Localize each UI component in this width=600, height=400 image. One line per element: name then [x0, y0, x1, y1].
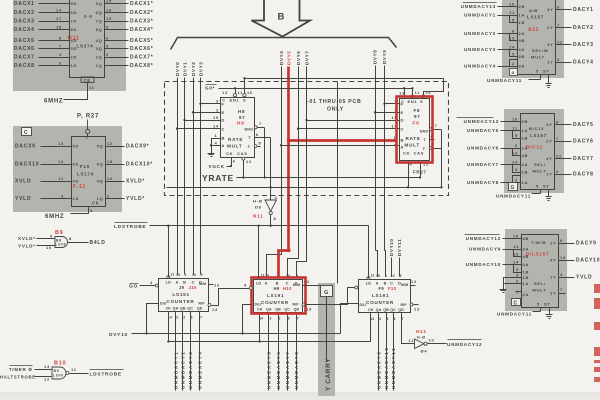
- wire UNMDACY6 to mux B-C11: [501, 148, 521, 150]
- mux A11 LS157 body: [518, 0, 556, 75]
- svg-text:A/B: A/B: [529, 8, 538, 13]
- svg-text:DVY9: DVY9: [382, 50, 387, 64]
- svg-text:3: 3: [515, 167, 518, 172]
- svg-text:4: 4: [150, 280, 153, 285]
- svg-text:13: 13: [58, 141, 64, 146]
- svg-text:18: 18: [56, 25, 62, 30]
- svg-text:10: 10: [107, 176, 113, 181]
- svg-text:M/M: M/M: [293, 283, 300, 287]
- svg-text:4A: 4A: [522, 162, 529, 167]
- wire XVLD* output: [106, 181, 125, 183]
- svg-text:YRATE: YRATE: [202, 173, 234, 183]
- svg-text:10: 10: [429, 338, 435, 343]
- wire second enable line upper: [245, 78, 444, 80]
- wire DACX3* output: [105, 21, 129, 23]
- svg-text:FR27: FR27: [413, 170, 427, 175]
- wire DACX9 input: [41, 146, 72, 148]
- wire counter F10 QD to inverter H11: [402, 318, 408, 344]
- svg-text:4: 4: [275, 195, 278, 200]
- wire DVY to F9 pin D: [307, 120, 400, 122]
- svg-text:Ø4: Ø4: [421, 349, 428, 354]
- svg-text:UNMDACY11: UNMDACY11: [391, 347, 396, 389]
- svg-text:VGCK: VGCK: [209, 164, 225, 169]
- counter J10 M/M output pin 12: [209, 284, 214, 286]
- svg-text:DACY2: DACY2: [573, 25, 594, 31]
- wire DVY5 red branch to rate multiplier F9: [289, 139, 397, 142]
- svg-text:4Y: 4Y: [550, 258, 556, 263]
- zone letter box C (left): [22, 128, 32, 136]
- bus bracket under arrow B: [171, 38, 397, 50]
- svg-text:UNMDACY1: UNMDACY1: [173, 351, 178, 389]
- svg-text:LS08: LS08: [56, 243, 67, 247]
- svg-text:5Q: 5Q: [96, 1, 103, 6]
- wire 6MHZ to register U clock: [64, 87, 88, 100]
- svg-text:F9: F9: [379, 286, 385, 291]
- wire UNMDACY8 to mux B-C11: [501, 182, 521, 184]
- svg-text:4Y: 4Y: [546, 156, 552, 161]
- svg-text:DACY5: DACY5: [573, 122, 594, 128]
- svg-text:7: 7: [435, 123, 438, 128]
- svg-text:DACX9: DACX9: [15, 144, 36, 150]
- svg-text:6: 6: [515, 143, 518, 148]
- svg-text:H-Ø: H-Ø: [417, 336, 426, 340]
- svg-text:3A: 3A: [519, 64, 526, 69]
- svg-text:UNMDACY3: UNMDACY3: [188, 351, 193, 389]
- wire DACX6* output: [105, 48, 129, 50]
- svg-text:7: 7: [297, 317, 299, 321]
- svg-text:3: 3: [216, 99, 219, 104]
- wire DACY2 output of mux A11: [556, 27, 572, 29]
- svg-text:Y CARRY: Y CARRY: [325, 358, 332, 391]
- wire DVY0 vertical: [177, 78, 179, 275]
- wire UNMDACY5 vertical (counter output): [268, 317, 270, 391]
- svg-text:M/M: M/M: [199, 282, 206, 286]
- svg-text:4Q: 4Q: [96, 38, 103, 43]
- svg-text:1B: 1B: [523, 270, 530, 275]
- svg-text:SEL/: SEL/: [534, 281, 546, 286]
- svg-text:13: 13: [212, 307, 218, 312]
- wire UNMDACY6 vertical (counter output): [278, 317, 280, 391]
- wire UNMDACY3 vertical (counter output): [190, 316, 192, 391]
- svg-text:2A: 2A: [523, 292, 530, 297]
- wire DVY10 drop: [391, 258, 393, 277]
- svg-text:15: 15: [376, 274, 380, 278]
- svg-text:B/C11: B/C11: [526, 145, 543, 151]
- svg-text:T: T: [423, 138, 426, 142]
- svg-text:H11: H11: [416, 329, 427, 335]
- svg-text:3Y: 3Y: [547, 7, 553, 12]
- svg-text:1B: 1B: [519, 20, 526, 25]
- gray highlight box around mux A11 (top right): [502, 0, 564, 78]
- svg-text:H-Ø: H-Ø: [253, 199, 263, 204]
- svg-text:B: B: [401, 138, 405, 143]
- svg-text:13: 13: [414, 307, 420, 312]
- svg-text:1B: 1B: [523, 275, 530, 280]
- svg-text:UNMDACY6: UNMDACY6: [276, 351, 281, 389]
- svg-text:4Y: 4Y: [547, 42, 553, 47]
- svg-text:11: 11: [415, 91, 420, 95]
- svg-text:10: 10: [513, 234, 519, 239]
- svg-text:RATE: RATE: [406, 136, 421, 141]
- svg-text:12: 12: [214, 283, 220, 288]
- wire DVY5 highlighted red trace: [279, 67, 289, 278]
- svg-text:E: E: [401, 110, 404, 115]
- svg-text:4A: 4A: [519, 47, 526, 52]
- svg-text:2Y: 2Y: [547, 25, 553, 30]
- svg-text:MULT: MULT: [533, 288, 547, 293]
- wire 6MHZ to F10 clock: [71, 213, 89, 215]
- svg-text:12: 12: [107, 141, 113, 146]
- wire DVY to H9 pin D: [185, 120, 221, 122]
- svg-text:DVY8: DVY8: [373, 50, 378, 64]
- wire DACX7 input: [39, 57, 70, 59]
- svg-text:6: 6: [106, 36, 109, 41]
- wire UNMDACY11 vertical (counter output): [393, 318, 395, 391]
- svg-text:8D: 8D: [71, 27, 78, 32]
- svg-text:QA: QA: [376, 308, 382, 312]
- svg-text:DVY6: DVY6: [296, 51, 301, 65]
- svg-text:D: D: [401, 118, 405, 123]
- svg-text:11: 11: [238, 91, 244, 95]
- counter H10 M/M output to Y CARRY: [303, 285, 322, 287]
- wire VGCK to H9 clock: [227, 166, 232, 168]
- wire XVLD* to B9: [37, 238, 56, 240]
- svg-text:LS157: LS157: [527, 15, 544, 20]
- wire UNMDACY2 vertical (counter output): [182, 316, 184, 391]
- svg-text:10: 10: [192, 273, 196, 277]
- wire DACX5* output: [105, 40, 129, 42]
- svg-text:CK: CK: [368, 308, 374, 312]
- svg-text:D/U: D/U: [255, 303, 262, 307]
- svg-text:MULT: MULT: [533, 169, 547, 174]
- wire DACX9* output: [106, 146, 125, 148]
- svg-text:5: 5: [537, 302, 540, 307]
- counter H10 LS191 body: [254, 280, 303, 313]
- svg-text:13: 13: [399, 92, 405, 96]
- svg-text:COUNTER: COUNTER: [167, 299, 195, 304]
- svg-text:DACX10: DACX10: [15, 162, 39, 168]
- svg-text:DVY3: DVY3: [198, 62, 203, 76]
- wire counter F10 D/U drop: [341, 304, 359, 334]
- F9 CAS pin 12 with bubble: [419, 160, 422, 163]
- svg-text:1D: 1D: [73, 196, 80, 201]
- svg-text:TIMER Ø: TIMER Ø: [9, 367, 33, 372]
- svg-text:2B: 2B: [522, 119, 529, 124]
- svg-text:E-E: E-E: [84, 14, 93, 19]
- svg-text:4: 4: [244, 283, 247, 288]
- wire counter H10 D/U drop: [243, 305, 252, 334]
- gray highlight box around mux C (bottom right): [505, 229, 567, 311]
- wire DACY1 output of mux A11: [556, 9, 572, 11]
- register F10 LS174 body: [72, 137, 106, 207]
- svg-text:13: 13: [512, 151, 518, 156]
- wire DACX7* output: [105, 57, 129, 59]
- svg-text:D: D: [222, 118, 226, 123]
- svg-text:G: G: [511, 185, 516, 191]
- svg-text:CK: CK: [257, 308, 263, 312]
- svg-text:3: 3: [59, 61, 62, 66]
- svg-text:1Y: 1Y: [547, 60, 553, 65]
- svg-text:UNMDACY8: UNMDACY8: [294, 351, 299, 389]
- inverter H11: [415, 339, 425, 349]
- mux C grounded inputs: [504, 278, 522, 284]
- svg-text:J9: J9: [179, 285, 185, 290]
- svg-text:15: 15: [106, 0, 112, 4]
- svg-text:DACY6: DACY6: [573, 139, 594, 145]
- svg-text:QA: QA: [173, 307, 179, 311]
- svg-text:EN1: EN1: [230, 98, 240, 103]
- svg-text:COUNTER: COUNTER: [261, 300, 289, 305]
- wire UNMDACY7 to mux B-C11: [501, 164, 521, 166]
- svg-text:3: 3: [512, 52, 515, 57]
- svg-text:QB: QB: [180, 307, 186, 311]
- wire LDSTROBE drop to counter F10 LD: [368, 226, 370, 279]
- svg-text:11: 11: [409, 338, 415, 343]
- svg-text:GO: GO: [129, 284, 138, 290]
- svg-text:2Y: 2Y: [546, 139, 552, 144]
- svg-text:DACY7: DACY7: [573, 156, 594, 162]
- svg-text:10: 10: [391, 274, 395, 278]
- wire UNMDACY13 to mux A11: [498, 6, 518, 8]
- wire UNMDACY10 vertical (counter output): [386, 318, 388, 391]
- svg-text:C: C: [24, 130, 28, 136]
- svg-text:R/P: R/P: [199, 302, 206, 306]
- svg-text:LD: LD: [366, 282, 371, 286]
- zone letter box C (mux C): [512, 299, 521, 306]
- svg-text:UNMDACY11: UNMDACY11: [497, 312, 532, 317]
- svg-text:DACX3*: DACX3*: [130, 19, 153, 25]
- wire DACX4 input: [39, 29, 70, 31]
- svg-text:4: 4: [560, 272, 563, 277]
- svg-text:LD: LD: [256, 282, 261, 286]
- svg-text:12: 12: [304, 279, 310, 284]
- ground at H9 inputs: [211, 150, 213, 154]
- svg-text:1A: 1A: [522, 180, 529, 185]
- wire GO* enable bus: [219, 88, 413, 90]
- wire DVY4 to F9 pin A: [282, 145, 400, 147]
- svg-text:12: 12: [560, 255, 566, 260]
- red highlight box around counter H10: [252, 278, 306, 314]
- mux A11 input pair brackets: [510, 16, 518, 23]
- svg-text:1A: 1A: [523, 281, 530, 286]
- svg-text:DVY1: DVY1: [182, 62, 187, 76]
- svg-text:Q11: Q11: [68, 36, 80, 42]
- mux C input pair brackets: [514, 250, 522, 257]
- svg-text:R/P: R/P: [401, 303, 408, 307]
- wire DACX10 input: [41, 164, 72, 166]
- svg-text:QD: QD: [294, 308, 300, 312]
- svg-text:A: A: [265, 282, 268, 286]
- svg-text:DACX1*: DACX1*: [130, 1, 153, 7]
- svg-text:1: 1: [215, 133, 218, 138]
- svg-text:DVY10: DVY10: [109, 332, 128, 338]
- svg-text:DACY9: DACY9: [576, 241, 597, 247]
- svg-text:5: 5: [259, 141, 262, 146]
- svg-text:6MHZ: 6MHZ: [45, 214, 64, 220]
- svg-text:G0*: G0*: [205, 86, 215, 91]
- wire DVY11 drop: [399, 258, 401, 277]
- svg-text:2Y: 2Y: [550, 241, 556, 246]
- gray highlight bar Y CARRY: [318, 283, 335, 396]
- svg-text:7Q: 7Q: [96, 19, 103, 24]
- svg-text:LS00: LS00: [53, 374, 64, 378]
- svg-text:YVLD*: YVLD*: [126, 196, 145, 202]
- svg-text:UNMDACY4: UNMDACY4: [198, 351, 203, 389]
- wire DACX5 input: [39, 40, 70, 42]
- svg-text:8Q: 8Q: [96, 27, 103, 32]
- wire B4LD output of B9: [68, 242, 89, 244]
- wire DVY7 vertical to counter H10 pin D: [297, 67, 307, 277]
- svg-text:XVLD*: XVLD*: [126, 179, 145, 185]
- svg-text:RATE: RATE: [228, 137, 243, 142]
- svg-text:CAS: CAS: [414, 151, 425, 156]
- wire DACX8* output: [105, 65, 129, 67]
- wire DACX4* output: [105, 29, 129, 31]
- svg-text:QC: QC: [390, 308, 396, 312]
- svg-text:DACX6*: DACX6*: [130, 46, 153, 52]
- svg-text:5D: 5D: [73, 144, 80, 149]
- svg-text:9: 9: [90, 208, 93, 213]
- svg-text:DACY3: DACY3: [573, 42, 594, 48]
- svg-text:CAS: CAS: [237, 151, 248, 156]
- ground at mux C: [549, 312, 551, 315]
- svg-text:B9: B9: [54, 369, 60, 373]
- svg-text:DACX9*: DACX9*: [126, 144, 149, 150]
- svg-text:DACX2: DACX2: [14, 10, 35, 16]
- H9 CAS pin 12 with bubble: [242, 157, 245, 160]
- svg-text:UNMDACY9: UNMDACY9: [376, 351, 381, 389]
- svg-text:F8: F8: [414, 108, 421, 113]
- wire DVY to H9 pin E: [194, 112, 221, 114]
- svg-text:13: 13: [513, 252, 519, 257]
- svg-text:LDSTROBE: LDSTROBE: [90, 372, 122, 378]
- svg-text:11: 11: [371, 274, 375, 278]
- svg-text:F10: F10: [80, 164, 90, 169]
- svg-text:DACX4*: DACX4*: [130, 27, 153, 33]
- svg-text:6D: 6D: [73, 162, 80, 167]
- svg-text:7: 7: [200, 316, 202, 320]
- svg-text:CK: CK: [166, 307, 172, 311]
- wire DACX3 input: [39, 21, 70, 23]
- wire UNMDACY4 to mux A11: [498, 66, 518, 68]
- svg-text:DACX7*: DACX7*: [130, 55, 153, 61]
- svg-text:3B: 3B: [519, 54, 526, 59]
- svg-text:UNMDACY10: UNMDACY10: [466, 262, 501, 267]
- ground at mux B-C11: [548, 194, 550, 197]
- wire counters clock bus: [169, 341, 371, 343]
- svg-text:4: 4: [233, 159, 236, 164]
- svg-text:UNMDACY4: UNMDACY4: [464, 64, 496, 69]
- svg-text:8: 8: [59, 36, 62, 41]
- svg-text:QB: QB: [275, 308, 281, 312]
- svg-text:11: 11: [513, 244, 519, 249]
- svg-text:DACY4: DACY4: [573, 60, 594, 66]
- wire YRATE cascade line: [237, 177, 421, 179]
- svg-text:4: 4: [557, 57, 560, 62]
- NAND gate B10: [52, 367, 66, 379]
- wire DACY5 output of mux B-C11: [555, 124, 572, 126]
- svg-text:12: 12: [44, 377, 50, 382]
- svg-text:LS191: LS191: [267, 293, 284, 298]
- svg-text:2: 2: [516, 279, 519, 284]
- svg-text:14: 14: [56, 8, 62, 13]
- svg-text:2: 2: [106, 52, 109, 57]
- wire DACX1 input: [39, 3, 70, 5]
- svg-text:DVY11: DVY11: [397, 239, 402, 256]
- svg-text:DACX1: DACX1: [14, 1, 35, 7]
- register U Q11 LS374 body: [70, 0, 105, 78]
- svg-text:97: 97: [239, 115, 246, 120]
- svg-text:3: 3: [176, 316, 178, 320]
- svg-text:QB: QB: [383, 308, 389, 312]
- svg-text:1B: 1B: [522, 136, 529, 141]
- svg-text:12: 12: [556, 153, 562, 158]
- svg-text:5Q: 5Q: [97, 144, 104, 149]
- svg-text:DACX3: DACX3: [14, 19, 35, 25]
- wire TIMER0 to B10: [35, 369, 53, 371]
- rate multiplier H9 body (7497): [221, 98, 255, 158]
- svg-text:LD: LD: [166, 281, 171, 285]
- wire XVLD input: [41, 181, 72, 183]
- svg-text:ST: ST: [544, 302, 551, 307]
- svg-text:F: F: [401, 101, 404, 106]
- svg-text:R/P: R/P: [293, 303, 300, 307]
- svg-text:2A: 2A: [519, 31, 526, 36]
- wire UNMDACY11 to mux C strobe: [533, 311, 541, 313]
- wire F9 outputs to vertical collector: [441, 130, 443, 188]
- zone letter box a: [510, 69, 518, 76]
- wire UNMDACY8 vertical (counter output): [296, 317, 298, 391]
- wire DVY to H9 pin F: [201, 103, 221, 105]
- svg-text:7: 7: [557, 22, 560, 27]
- svg-text:12: 12: [557, 39, 563, 44]
- svg-text:C: C: [401, 126, 405, 131]
- svg-text:UNMDACY10: UNMDACY10: [384, 346, 389, 389]
- svg-text:6D: 6D: [71, 10, 78, 15]
- wire UNMDACY1 to mux A11: [498, 15, 518, 17]
- svg-text:4: 4: [215, 140, 218, 145]
- svg-text:9: 9: [399, 274, 401, 278]
- svg-text:7D: 7D: [71, 19, 78, 24]
- F9 clock pin drop: [408, 161, 410, 188]
- svg-text:10: 10: [512, 117, 518, 122]
- svg-text:B: B: [384, 282, 387, 286]
- dashed box -01 THRU -05 PCB ONLY: [165, 82, 449, 196]
- svg-text:5: 5: [106, 44, 109, 49]
- svg-text:UNMDACY13: UNMDACY13: [461, 4, 496, 9]
- svg-text:T: T: [248, 136, 251, 140]
- svg-text:2Y: 2Y: [550, 291, 556, 296]
- svg-text:3: 3: [516, 273, 519, 278]
- wire HALTSTROBE to B10: [35, 376, 53, 378]
- svg-text:13: 13: [44, 364, 50, 369]
- svg-text:EN1: EN1: [408, 99, 418, 104]
- svg-text:7: 7: [556, 136, 559, 141]
- svg-text:8: 8: [69, 236, 72, 241]
- svg-text:B: B: [222, 136, 226, 141]
- svg-text:ENO: ENO: [420, 129, 429, 133]
- wire UNMDACY1 vertical (counter output): [175, 316, 177, 391]
- svg-text:14: 14: [512, 160, 518, 165]
- svg-text:15: 15: [107, 159, 113, 164]
- svg-text:YVLD: YVLD: [576, 275, 592, 281]
- svg-text:2B: 2B: [519, 4, 526, 9]
- pin 11 CK of register U: [87, 83, 89, 87]
- svg-text:CK: CK: [403, 151, 410, 156]
- svg-text:2: 2: [515, 178, 518, 183]
- svg-text:7: 7: [560, 287, 563, 292]
- svg-text:10: 10: [509, 2, 515, 7]
